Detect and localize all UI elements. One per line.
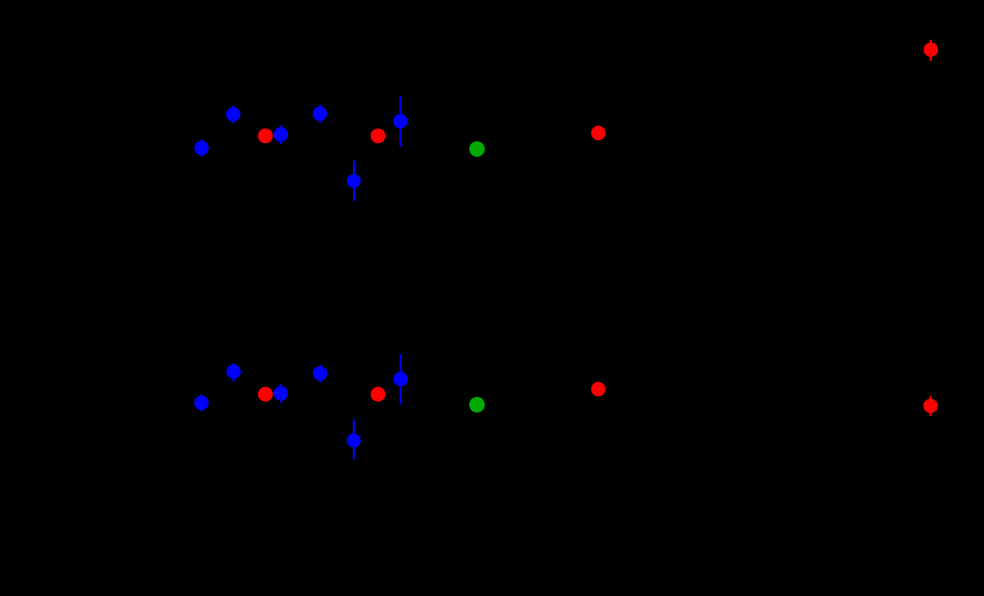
top panel: data point B6 (blue) with long error bar [393,96,407,147]
bottom panel: data point R6 (red) [371,387,386,402]
top panel: data point B4 (blue) with error bar [313,105,327,124]
top panel: data point B3 (blue) with error bar [274,125,288,144]
top panel: data point R2 (red) [371,129,386,144]
top panel: data point R1 (red) [258,129,273,144]
bottom panel: data point B11 (blue) with long error bar [347,420,361,460]
bottom panel: data point B10 (blue) with error bar [313,365,327,383]
bottom panel: data point B9 (blue) with error bar [274,384,288,403]
top panel: data point R3 (red) [591,126,605,140]
bottom panel: data point R8 (red) with error bar, bottom right [923,396,937,416]
bottom panel: data point R5 (red) [258,387,273,402]
top panel: data point B1 (blue) [194,140,208,157]
bottom panel: data point R7 (red) [591,382,605,396]
bottom panel: data point B8 (blue) with error bar [226,363,240,382]
top panel: data point R4 (red) with error bar, top right [924,40,938,61]
top panel: data point G1 (green) [469,141,485,157]
bottom panel: data point B7 (blue) [194,395,208,412]
top panel: data point B5 (blue) with long error bar [347,161,361,202]
bottom panel: data point B12 (blue) with long error bar [393,354,407,405]
bottom panel: data point G2 (green) [469,397,485,413]
top panel: data point B2 (blue) with error bar [226,106,240,124]
